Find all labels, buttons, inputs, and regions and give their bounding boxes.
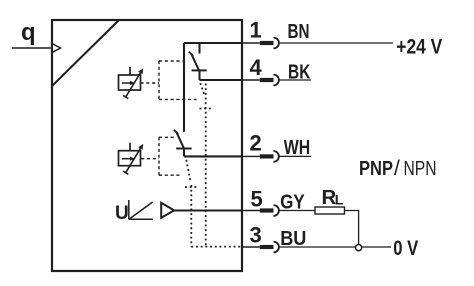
wire W1 vertical branch <box>183 43 185 132</box>
pin 2 <box>242 131 311 162</box>
wire pin2 inner <box>184 155 242 157</box>
switch S2 (NO contact) <box>174 130 192 157</box>
svg-text:4: 4 <box>250 55 263 80</box>
svg-text:/: / <box>394 157 400 180</box>
pin 1 <box>242 18 393 49</box>
pin 3 <box>242 223 356 253</box>
svg-text:3: 3 <box>250 223 262 248</box>
wire GY inner <box>174 209 242 211</box>
comparator B1 (adjustable threshold) <box>119 67 144 99</box>
comparator B2 (adjustable threshold) <box>119 143 144 175</box>
svg-text:PNP: PNP <box>359 158 393 180</box>
svg-text:L: L <box>335 191 344 207</box>
junction node (0V rail) <box>356 245 362 251</box>
resistor RL <box>315 207 345 214</box>
amplifier A1 <box>161 203 174 218</box>
dashed link B2 to switch S2 <box>141 137 181 175</box>
pin 4 <box>242 55 311 85</box>
svg-text:U: U <box>115 203 129 224</box>
linkage L1 (dotted mechanical link) <box>200 83 212 246</box>
flow input arrow <box>12 47 52 49</box>
dashed link B1 to switch S1 <box>141 61 197 99</box>
wire pin1 inner (+24V rail inside) <box>184 42 242 44</box>
svg-text:q: q <box>21 19 36 46</box>
svg-text:BN: BN <box>288 20 310 43</box>
svg-text:NPN: NPN <box>404 158 437 180</box>
sensor body outline <box>52 20 242 271</box>
svg-text:0 V: 0 V <box>393 237 418 260</box>
pin 5 <box>242 186 315 216</box>
linkage bottom dotted run to pin3 <box>191 246 242 248</box>
svg-text:1: 1 <box>250 18 262 43</box>
output characteristic axes <box>129 200 153 219</box>
svg-text:2: 2 <box>250 131 262 156</box>
wire RL to 0V rail <box>345 211 359 245</box>
wire pin4 inner <box>200 79 243 81</box>
svg-text:WH: WH <box>284 136 310 159</box>
svg-text:5: 5 <box>251 186 263 211</box>
corner diagonal (flow sensor mark) <box>52 20 119 86</box>
svg-text:+24 V: +24 V <box>396 36 442 59</box>
switch S1 (NO contact) <box>189 43 207 80</box>
linkage L2 (dotted mechanical link) <box>185 160 197 247</box>
wire junction to 0V <box>362 246 391 248</box>
